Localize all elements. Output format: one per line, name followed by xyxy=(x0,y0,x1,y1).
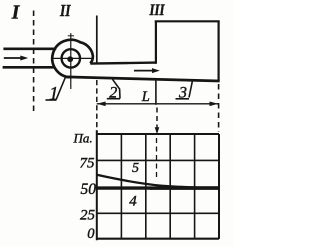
svg-text:II: II xyxy=(59,1,71,20)
graph grid horizontal 75 xyxy=(97,159,219,161)
duct top wall 2 xyxy=(90,63,156,64)
chamber III left wall xyxy=(155,21,157,64)
chamber III right wall xyxy=(218,21,220,82)
label 3 (chamber) with underline and leader xyxy=(176,82,193,102)
svg-text:Па.: Па. xyxy=(73,130,93,145)
fan hub dot xyxy=(67,56,73,62)
label 2 (duct) with underline and leader xyxy=(107,79,120,101)
label 1 (fan) with underline and leader xyxy=(46,78,66,105)
projection dashed line from chamber wall with down arrow xyxy=(155,108,160,181)
svg-text:50: 50 xyxy=(81,181,97,198)
projection dashed line from duct start down to graph axis xyxy=(96,80,98,131)
inlet flow arrow xyxy=(4,56,28,61)
chamber III top wall xyxy=(155,20,220,22)
fan center line vertical xyxy=(70,33,72,89)
svg-text:1: 1 xyxy=(49,83,59,104)
graph y-axis xyxy=(96,130,98,240)
fan center line horizontal xyxy=(53,57,92,59)
svg-text:25: 25 xyxy=(80,207,96,223)
fan inlet circle xyxy=(62,49,80,67)
center line tick xyxy=(68,35,74,37)
fan volute (spiral casing) 1 xyxy=(52,40,93,77)
dimension line L xyxy=(97,102,219,107)
svg-text:4: 4 xyxy=(129,193,137,209)
svg-text:5: 5 xyxy=(132,161,139,176)
graph top border xyxy=(97,133,219,135)
svg-text:III: III xyxy=(149,2,166,19)
svg-text:I: I xyxy=(11,2,21,23)
duct flow arrow xyxy=(134,68,160,73)
inlet pipe top wall xyxy=(3,47,56,50)
inlet pipe bottom wall xyxy=(3,66,55,69)
graph grid horizontal 25 xyxy=(97,212,219,214)
duct and chamber bottom wall xyxy=(66,77,220,81)
svg-text:0: 0 xyxy=(87,226,95,242)
svg-text:75: 75 xyxy=(80,156,96,172)
duct start line xyxy=(96,16,98,64)
dimension witness line at chamber wall xyxy=(155,79,157,105)
graph grid vertical lines xyxy=(120,134,122,239)
section line I (dashed vertical) xyxy=(33,11,35,114)
svg-text:L: L xyxy=(141,89,150,105)
curve 5 (total pressure) xyxy=(97,175,219,188)
graph right border xyxy=(218,134,220,239)
projection dashed line right xyxy=(218,84,220,132)
graph grid horizontal 50 xyxy=(97,186,219,188)
graph bottom border 0 xyxy=(97,238,219,240)
line 4 (static pressure) xyxy=(97,188,152,190)
